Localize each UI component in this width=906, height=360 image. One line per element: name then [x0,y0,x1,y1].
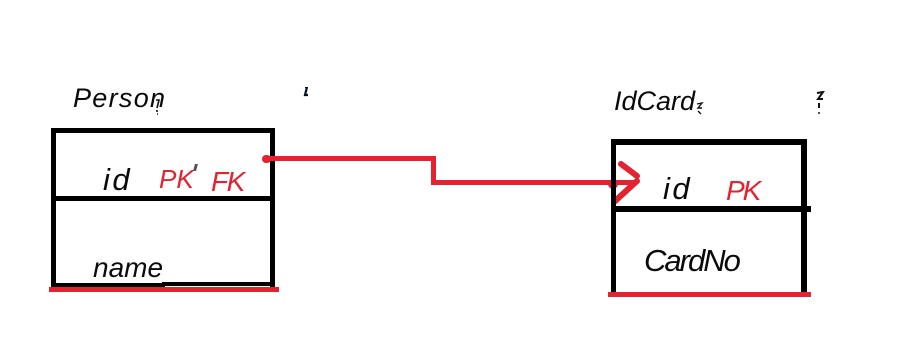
entity IdCard box: top edge [611,139,807,145]
red connector: vertical step wire [431,157,436,185]
Person box bottom edge left segment [51,283,165,288]
stray mark after IdCard title [696,102,706,116]
red connector: start dot at Person edge [262,155,271,163]
red bottom edge of IdCard box [608,292,811,297]
key label PK (IdCard) [726,175,759,207]
Person divider line [53,196,272,201]
key label PK (Person) [159,164,194,195]
field name (Person) [93,252,163,284]
entity IdCard box: right edge [801,139,807,293]
Person box bottom edge right segment [162,282,275,286]
entity Person box outline [51,128,275,288]
field id (IdCard) [663,171,692,207]
red arrowhead chevron at IdCard [605,155,647,210]
stray mark right of IdCard [815,91,827,115]
entity title Person [73,83,166,114]
field id (Person) [103,162,132,198]
stray tick after PK [193,164,198,171]
stray mark after Person title [154,99,164,115]
field CardNo [644,243,739,279]
entity title IdCard [614,86,695,117]
key label FK (Person) [211,166,244,198]
red connector: second horizontal wire [432,180,637,185]
red underline below Person box [49,287,279,292]
entity IdCard box: left edge [611,139,616,293]
red connector: first horizontal wire [266,156,436,161]
IdCard divider line (protrudes right) [611,206,811,212]
stray mark (cursor) near top center [302,87,311,99]
